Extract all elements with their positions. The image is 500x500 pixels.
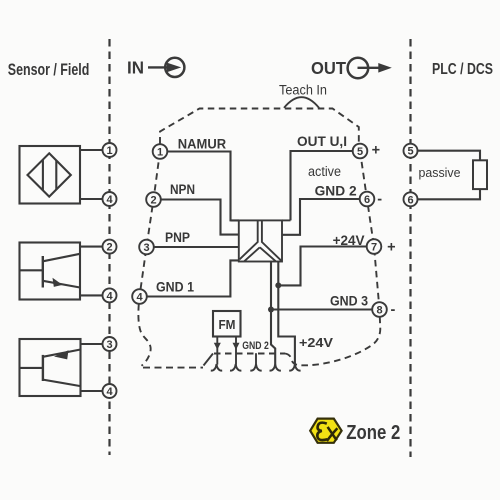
svg-text:Zone 2: Zone 2 — [346, 421, 400, 444]
svg-text:7: 7 — [371, 242, 377, 254]
svg-text:5: 5 — [407, 146, 413, 158]
svg-text:OUT: OUT — [311, 58, 346, 78]
svg-text:+: + — [387, 240, 395, 256]
wire PNP: terminal 3 to converter — [154, 246, 239, 248]
svg-text:5: 5 — [357, 146, 363, 158]
PLC boundary dashed line (right) — [409, 39, 411, 457]
FM wire arrow left — [216, 337, 218, 365]
device boundary dashed (bottom right curve up to terminal 8) — [285, 317, 380, 365]
device terminal circles — [132, 144, 387, 317]
device boundary dashed (right side through terminals 5-8) — [360, 151, 380, 310]
svg-text:8: 8 — [376, 305, 382, 317]
terminal 6 — [360, 192, 375, 207]
field boundary dashed line (left) — [108, 39, 110, 455]
node 1 (field) — [103, 143, 117, 157]
wire +24V: junction to terminal 7 — [278, 247, 367, 286]
svg-text:+24V: +24V — [333, 233, 365, 248]
svg-text:3: 3 — [106, 339, 112, 351]
svg-text:GND 2: GND 2 — [315, 184, 357, 199]
svg-text:2: 2 — [106, 242, 112, 254]
GND 2 plug stem — [255, 353, 257, 364]
wire B: converter +24V down to plug terminal — [278, 262, 295, 365]
svg-text:-: - — [390, 302, 395, 318]
wire A: converter ground down to plug terminal — [271, 262, 275, 365]
svg-text:NAMUR: NAMUR — [178, 136, 226, 152]
wire sensor B3 to terminal 3 — [81, 343, 104, 345]
svg-text:Teach In: Teach In — [279, 82, 327, 97]
svg-text:active: active — [308, 164, 341, 179]
FM wire arrow right — [235, 337, 237, 365]
fork 1 — [211, 364, 222, 371]
svg-text:GND 1: GND 1 — [156, 280, 194, 295]
wire GND 2: converter to terminal 6 — [282, 199, 360, 235]
Ex hexagon logo — [310, 419, 341, 443]
node 2 (field) — [103, 240, 117, 254]
wire NAMUR: terminal 1 to converter — [167, 152, 239, 222]
fork 2 — [230, 364, 241, 371]
svg-text:6: 6 — [407, 194, 413, 206]
node 4 (field) — [103, 384, 117, 398]
OUT icon circle with outgoing arrow — [348, 58, 392, 79]
terminal 4 — [132, 289, 147, 304]
wire sensor B2 to terminal 4 — [80, 294, 103, 296]
IN icon arrow into circle — [148, 58, 184, 77]
junction dot +24V — [275, 282, 281, 288]
wire GND 1: terminal 4 to converter — [147, 260, 239, 296]
device boundary dashed (top edge with corners) — [160, 109, 359, 144]
wire sensor B1 to terminal 4 — [80, 198, 103, 200]
x glyph — [327, 427, 338, 441]
svg-text:-: - — [377, 192, 382, 208]
Teach In arc — [284, 97, 319, 108]
svg-text:4: 4 — [106, 386, 113, 398]
wire GND 3: junction to terminal 8 — [271, 308, 372, 310]
svg-text:PLC / DCS: PLC / DCS — [432, 61, 493, 78]
plug socket forks — [211, 364, 301, 371]
wire PLC input loop — [418, 151, 480, 200]
svg-text:4: 4 — [106, 290, 113, 302]
svg-text:6: 6 — [364, 194, 370, 206]
fork 4 — [270, 364, 281, 371]
fork 3 — [250, 364, 261, 371]
svg-text:GND 3: GND 3 — [330, 294, 368, 309]
device boundary dashed (bottom horizontal, upper part) — [214, 353, 285, 355]
converter Y-symbol double lines — [240, 221, 258, 259]
svg-text:Sensor / Field: Sensor / Field — [8, 61, 90, 79]
converter U1 body — [239, 220, 291, 261]
epsilon glyph — [317, 423, 327, 440]
terminal 8 — [372, 302, 387, 317]
svg-text:3: 3 — [143, 242, 149, 254]
svg-text:PNP: PNP — [165, 230, 190, 245]
svg-text:NPN: NPN — [170, 182, 195, 197]
svg-text:+24V: +24V — [299, 336, 334, 350]
fork 5 — [289, 364, 300, 371]
terminal 3 — [139, 240, 154, 255]
left terminal circles on field boundary — [103, 143, 117, 398]
terminal 7 — [367, 239, 382, 254]
svg-text:+: + — [372, 143, 380, 159]
svg-text:passive: passive — [419, 165, 461, 180]
wire OUT U,I: converter to terminal 5 — [291, 151, 353, 220]
sensor B2 (NPN 3-wire) housing — [20, 243, 104, 300]
svg-text:IN: IN — [127, 58, 144, 78]
node 3 (field) — [103, 337, 117, 351]
svg-text:GND 2: GND 2 — [242, 340, 268, 352]
svg-text:1: 1 — [106, 145, 112, 157]
sensor B1 (NAMUR proximity) housing — [20, 146, 104, 204]
wire sensor B3 to terminal 4 — [81, 390, 104, 392]
NAMUR diamond symbol — [28, 153, 71, 196]
sensor B3 (PNP 3-wire) housing — [20, 339, 104, 396]
FM box — [213, 311, 241, 337]
wire sensor B2 to terminal 2 — [80, 246, 103, 248]
node 4 (field) — [103, 288, 117, 302]
svg-text:OUT U,I: OUT U,I — [297, 133, 347, 149]
svg-text:1: 1 — [157, 147, 163, 159]
PNP transistor symbol — [42, 355, 44, 381]
node 6 (PLC) — [404, 192, 418, 206]
svg-text:FM: FM — [219, 318, 236, 332]
PLC terminal circles — [404, 144, 418, 207]
device boundary dashed (bottom horizontal, low part) — [143, 367, 203, 369]
device boundary slash up at FM terminal — [204, 354, 214, 366]
node 5 (PLC) — [404, 144, 418, 158]
svg-text:4: 4 — [106, 194, 113, 206]
wire NPN: terminal 2 to converter — [161, 200, 239, 235]
NPN transistor symbol — [42, 256, 44, 288]
wire sensor B1 to terminal 1 — [80, 149, 103, 151]
node 4 (field) — [103, 192, 117, 206]
svg-text:2: 2 — [150, 195, 156, 207]
terminal 1 — [153, 144, 168, 159]
junction dot GND3 — [268, 307, 274, 313]
resistor (passive load) — [473, 160, 487, 189]
svg-text:4: 4 — [136, 292, 143, 304]
terminal 5 — [353, 144, 368, 159]
device boundary dashed (left side through terminals 1-4) — [138, 152, 160, 366]
terminal 2 — [146, 192, 161, 207]
